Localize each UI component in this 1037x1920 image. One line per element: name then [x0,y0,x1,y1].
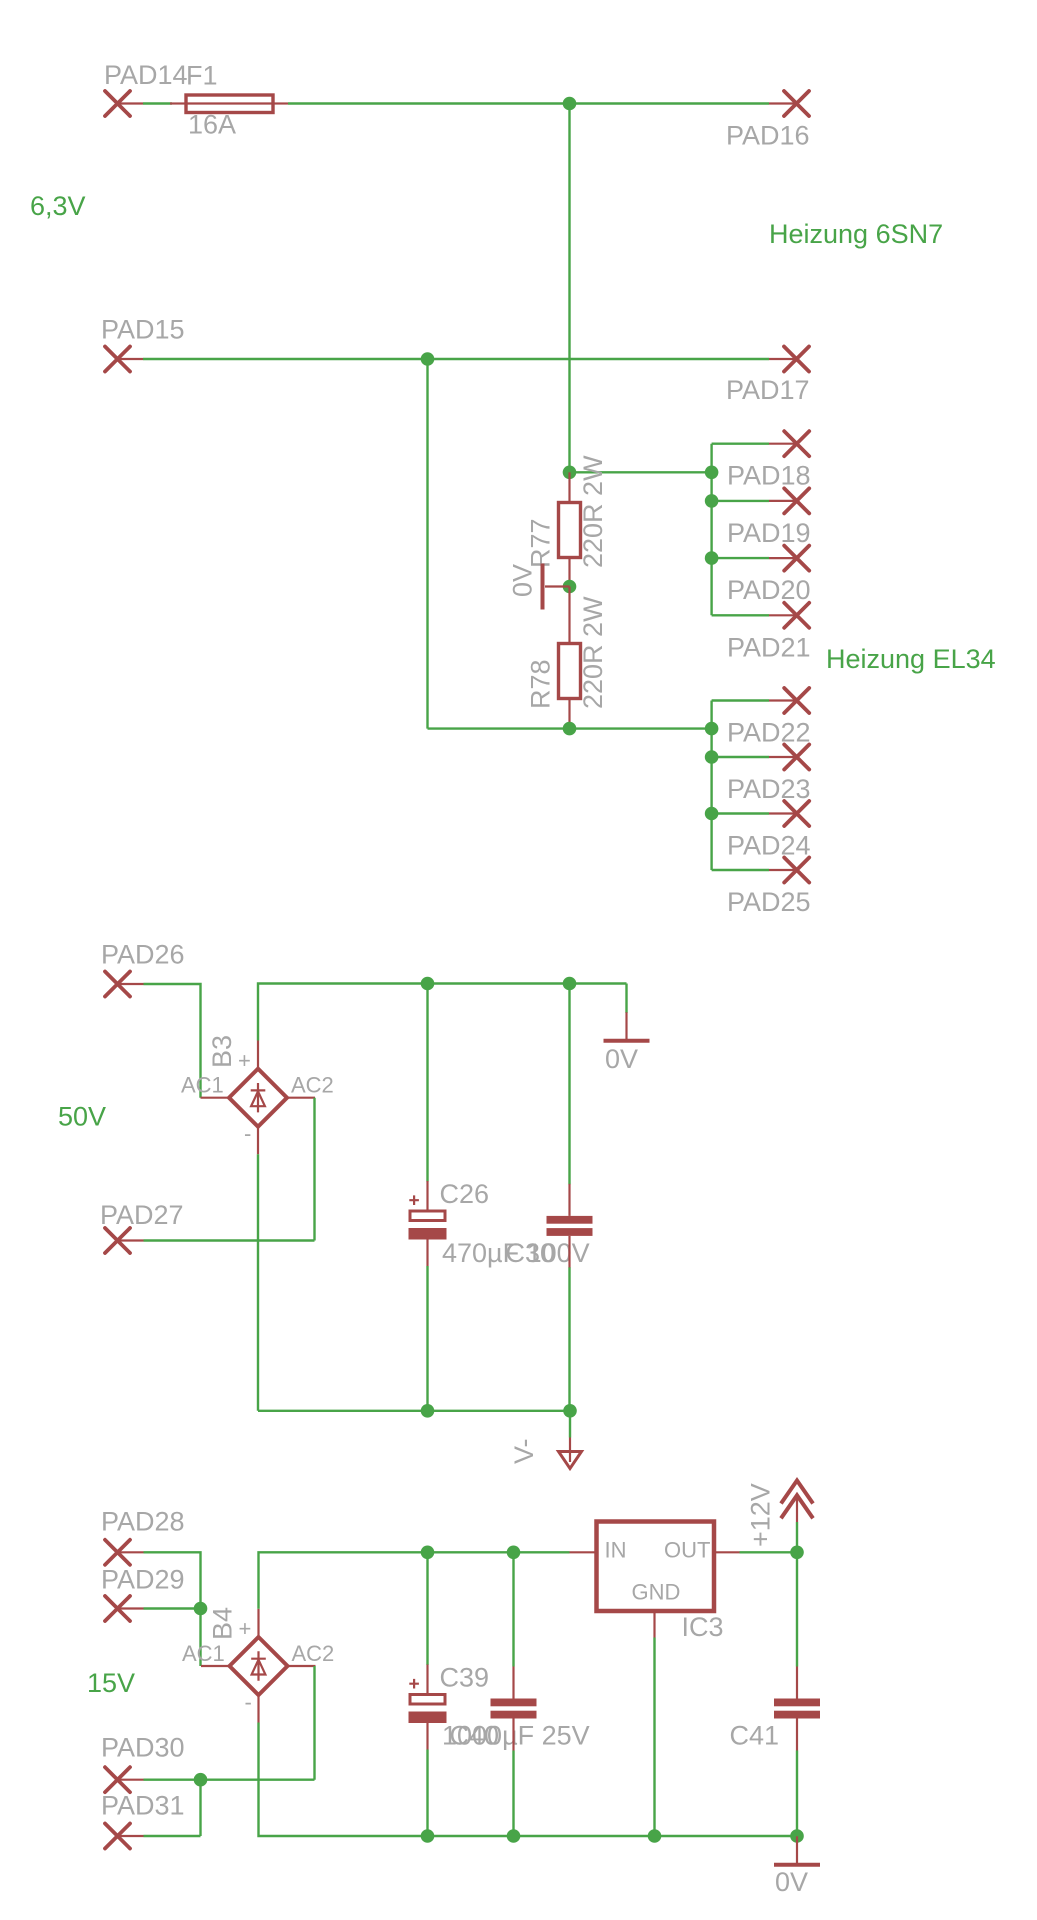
svg-text:+12V: +12V [746,1483,776,1547]
wire [653,1638,655,1837]
pad PAD24 [712,801,811,861]
svg-text:PAD31: PAD31 [101,1791,185,1821]
wire [144,1835,201,1837]
junction [563,977,577,991]
svg-text:Heizung 6SN7: Heizung 6SN7 [769,219,943,249]
junction [507,1546,521,1560]
svg-text:PAD18: PAD18 [727,461,811,491]
junction [563,722,577,736]
pad PAD19 [712,488,811,548]
ground 0V [774,1836,820,1897]
supply V- [509,1411,582,1469]
junction [194,1602,208,1616]
junction [421,1404,435,1418]
pad PAD29 [101,1565,185,1622]
svg-text:PAD28: PAD28 [101,1507,185,1537]
pad PAD28 [101,1507,185,1565]
wire [143,358,769,360]
wire [144,1552,201,1608]
wire [313,1098,315,1241]
svg-text:F1: F1 [186,61,218,91]
svg-text:50V: 50V [58,1102,106,1132]
svg-text:PAD26: PAD26 [101,940,185,970]
svg-text:PAD21: PAD21 [727,632,811,662]
svg-text:B4: B4 [208,1607,238,1640]
resistor R77 [526,455,609,587]
wire [144,984,201,1098]
svg-text:220R 2W: 220R 2W [578,455,608,568]
wire [144,1239,315,1241]
svg-text:+: + [239,1616,252,1641]
wire [259,1723,798,1837]
junction [705,722,719,736]
pad PAD22 [712,688,811,748]
svg-text:0V: 0V [605,1044,638,1074]
svg-text:AC2: AC2 [291,1073,334,1098]
wire [258,1410,570,1412]
svg-text:PAD15: PAD15 [101,315,185,345]
svg-text:15V: 15V [87,1668,135,1698]
pad PAD14 [104,60,188,116]
junction [563,97,577,111]
svg-text:AC1: AC1 [181,1073,224,1098]
capacitor C26 [409,984,590,1411]
pad PAD31 [101,1791,185,1849]
ground 0V [508,564,570,610]
pad PAD26 [101,940,185,997]
svg-text:PAD19: PAD19 [727,518,811,548]
svg-text:+: + [238,1048,251,1073]
svg-text:GND: GND [632,1580,681,1605]
svg-text:PAD14: PAD14 [104,60,188,90]
svg-text:C41: C41 [730,1721,780,1751]
wire [199,1609,201,1667]
junction [421,352,435,366]
svg-text:6,3V: 6,3V [30,191,86,221]
svg-text:Heizung EL34: Heizung EL34 [826,644,996,674]
svg-text:IC3: IC3 [682,1612,724,1642]
junction [790,1546,804,1560]
wire [288,102,769,104]
svg-text:PAD29: PAD29 [101,1565,185,1595]
pad PAD16 [726,91,810,151]
svg-text:AC1: AC1 [182,1641,225,1666]
wire [740,1551,798,1553]
wire [426,359,428,729]
pad PAD17 [726,347,810,406]
svg-text:PAD22: PAD22 [727,718,811,748]
junction [705,807,719,821]
svg-text:PAD20: PAD20 [727,575,811,605]
pad PAD23 [712,745,811,805]
pad PAD20 [712,546,811,606]
junction [705,750,719,764]
svg-text:PAD17: PAD17 [726,375,810,405]
junction [790,1829,804,1843]
bridge rectifier B4 [182,1607,334,1723]
resistor R78 [526,587,609,729]
svg-text:PAD30: PAD30 [101,1733,185,1763]
junction [648,1829,662,1843]
wire [143,102,172,104]
wire [144,1607,201,1609]
capacitor C39 [409,1552,590,1836]
svg-text:PAD24: PAD24 [727,831,811,861]
svg-text:OUT: OUT [664,1538,710,1563]
svg-text:-: - [245,1690,252,1715]
pad PAD30 [101,1733,185,1793]
capacitor C30 [506,984,593,1411]
regulator IC3 [570,1522,740,1643]
bridge rectifier B3 [181,1035,334,1154]
wire [144,1778,315,1780]
svg-text:AC2: AC2 [292,1641,335,1666]
wire [199,1780,201,1836]
capacitor C41 [730,1552,821,1836]
svg-text:R77: R77 [526,518,556,568]
pad PAD27 [100,1200,184,1253]
junction [421,977,435,991]
pad PAD21 [712,603,811,663]
fuse F1 [170,61,288,140]
wire [710,444,712,616]
svg-text:C26: C26 [440,1179,490,1209]
junction [563,580,577,594]
junction [421,1829,435,1843]
svg-text:R78: R78 [526,659,556,709]
junction [194,1773,208,1787]
wire [568,104,570,473]
svg-text:B3: B3 [207,1035,237,1068]
wire [313,1666,315,1780]
junction [705,494,719,508]
capacitor C40 [450,1552,537,1836]
svg-text:0V: 0V [775,1867,808,1897]
svg-text:C39: C39 [440,1663,490,1693]
svg-text:C30: C30 [506,1238,556,1268]
svg-text:PAD16: PAD16 [726,121,810,151]
svg-text:V-: V- [509,1438,539,1464]
pad PAD18 [712,431,811,491]
svg-text:PAD23: PAD23 [727,774,811,804]
pad PAD25 [712,858,811,918]
junction [705,551,719,565]
junction [705,466,719,480]
wire [710,701,712,871]
supply +12V [746,1481,814,1553]
svg-text:220R 2W: 220R 2W [578,596,608,709]
svg-text:0V: 0V [508,564,538,597]
ground 0V [604,984,650,1075]
wire [428,727,712,729]
junction [563,466,577,480]
wire [258,984,627,1041]
svg-text:C40: C40 [450,1720,500,1750]
svg-text:-: - [244,1121,251,1146]
svg-text:PAD27: PAD27 [100,1200,184,1230]
svg-text:IN: IN [605,1538,627,1563]
svg-text:PAD25: PAD25 [727,887,811,917]
junction [421,1546,435,1560]
junction [563,1404,577,1418]
junction [507,1829,521,1843]
pad PAD15 [101,315,185,372]
wire [570,471,712,473]
wire [259,1552,570,1609]
wire [257,1154,259,1411]
